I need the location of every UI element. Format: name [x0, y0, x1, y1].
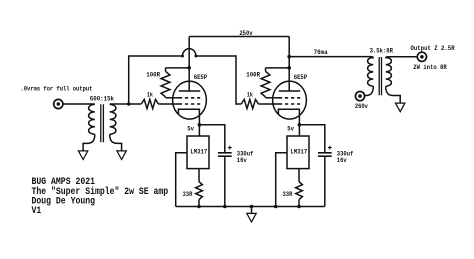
regulator U1 LM317 — [187, 136, 209, 169]
node V1 cathode junction — [198, 123, 202, 127]
ground T2 secondary — [396, 103, 405, 112]
node R3 rail junction — [197, 205, 201, 209]
ground symbol at rail — [247, 213, 256, 222]
transformer T1 secondary winding — [110, 104, 116, 134]
wire T1 secondary to R2 — [110, 103, 142, 105]
wire cathode node to U1 input pin — [198, 125, 200, 136]
wire U2 adj return — [276, 153, 287, 207]
transformer T2 secondary winding — [386, 58, 392, 87]
svg-text:600:15k: 600:15k — [90, 96, 114, 103]
node input branch junction — [127, 102, 130, 105]
svg-text:16v: 16v — [337, 157, 347, 164]
svg-text:1k: 1k — [247, 91, 253, 98]
svg-text:260v: 260v — [355, 103, 368, 110]
svg-text:100R: 100R — [246, 71, 260, 78]
wire R4 top to anode node — [266, 67, 290, 69]
svg-text:16v: 16v — [237, 157, 247, 164]
tube V2 grid g2 — [279, 97, 300, 99]
transformer T1 core — [101, 104, 104, 142]
wire R4 bottom to grid g2 — [266, 97, 280, 99]
resistor R2 1k — [141, 99, 158, 108]
svg-text:3.5k:8R: 3.5k:8R — [370, 47, 394, 54]
svg-text:100R: 100R — [146, 71, 160, 78]
wire 76ma B+ feed to T2 — [289, 57, 373, 59]
transformer T2 primary winding — [368, 58, 374, 87]
transformer T2 core — [379, 57, 381, 95]
tube V2 grid g1 — [279, 103, 300, 105]
wire U2 output to R6 — [298, 169, 300, 182]
capacitor C1 330uf plates — [218, 152, 232, 154]
wire R1 top to anode node — [166, 67, 190, 69]
node V2 cathode junction — [298, 123, 302, 127]
wire C1 to ground rail — [224, 156, 226, 206]
wire cathode to C2 — [299, 125, 324, 152]
node ground-symbol rail junction — [250, 205, 254, 209]
svg-text:33R: 33R — [183, 191, 193, 198]
wire cathode to C1 — [199, 125, 224, 152]
tube V1 anode lead — [188, 37, 190, 92]
capacitor C2 polarity plus — [328, 146, 332, 150]
wire T2 secondary to ground — [386, 86, 401, 103]
wire hop to V2 1k — [196, 56, 241, 104]
svg-text:2W into 8R: 2W into 8R — [413, 64, 447, 71]
wire R6 to ground rail — [298, 200, 300, 207]
node C1 rail junction — [223, 205, 227, 209]
resistor R5 1k — [241, 99, 258, 108]
wire cathode node to U2 input pin — [298, 125, 300, 136]
node R6 rail junction — [297, 205, 301, 209]
tube V2 anode lead — [288, 37, 290, 92]
svg-text:6E5P: 6E5P — [194, 74, 208, 81]
regulator U2 LM317 — [287, 136, 309, 169]
node anode junction — [187, 66, 191, 70]
svg-text:Output Z 2.5R: Output Z 2.5R — [411, 45, 455, 52]
wire J1 to T1 primary — [63, 103, 95, 105]
ground T1 secondary — [117, 151, 126, 160]
wire riser to stage-2 grid feed — [129, 56, 183, 104]
tube V1 grid g1 — [179, 103, 200, 105]
jack 260v B+ input — [355, 92, 364, 101]
wire rail to ground symbol — [251, 207, 253, 214]
wire T1 secondary to ground — [110, 134, 122, 151]
ground T1 primary — [78, 151, 87, 160]
jack output — [417, 52, 426, 61]
resistor R3 33R — [196, 182, 203, 200]
wire hop over anode drop — [183, 49, 196, 56]
node anode junction — [287, 66, 291, 70]
resistor R6 33R — [296, 182, 303, 200]
wire C2 to ground rail — [324, 156, 326, 206]
wire T1 primary to ground — [83, 134, 95, 151]
250v supply rail — [189, 36, 289, 38]
svg-text:LM317: LM317 — [190, 149, 207, 156]
svg-text:250v: 250v — [239, 30, 252, 37]
svg-text:33R: 33R — [283, 191, 293, 198]
resistor R4 100R — [265, 68, 267, 71]
transformer T1 primary winding — [89, 104, 95, 134]
wire R2 to grid g1 — [158, 103, 179, 105]
svg-text:5v: 5v — [187, 126, 194, 133]
tube V2 plate — [279, 90, 300, 92]
wire R5 to grid g1 — [258, 103, 279, 105]
capacitor C2 330uf plates — [318, 152, 332, 154]
svg-text:LM317: LM317 — [290, 149, 307, 156]
resistor R1 100R — [165, 68, 167, 71]
svg-text:1k: 1k — [147, 91, 153, 98]
input jack J1 — [54, 99, 63, 108]
node 76ma tap junction — [287, 55, 291, 59]
svg-text:.0vrms for full output: .0vrms for full output — [21, 85, 93, 92]
svg-text:76ma: 76ma — [314, 49, 328, 56]
tube V2 cathode — [278, 109, 299, 125]
capacitor C1 polarity plus — [228, 146, 232, 150]
svg-text:V1: V1 — [32, 205, 42, 217]
wire R1 bottom to grid g2 — [166, 97, 180, 99]
node U2 adj rail junction — [274, 205, 278, 209]
wire U1 output to R3 — [198, 169, 200, 182]
wire T2 secondary to output jack — [386, 57, 418, 59]
tube V2 6E5P envelope — [273, 81, 307, 119]
tube V1 cathode — [178, 109, 199, 125]
wire R3 to ground rail — [198, 200, 200, 207]
wire T2 primary to 260v jack — [364, 86, 373, 95]
ground rail — [176, 206, 325, 208]
wire U1 adj return — [176, 153, 187, 207]
tube V1 plate — [179, 90, 200, 92]
svg-text:5v: 5v — [287, 126, 294, 133]
tube V1 grid g2 — [179, 97, 200, 99]
svg-text:6E5P: 6E5P — [294, 74, 308, 81]
tube V1 6E5P envelope — [173, 81, 207, 119]
